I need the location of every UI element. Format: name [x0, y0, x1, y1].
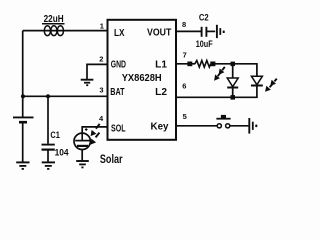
node: C1 junction on BAT net — [46, 94, 50, 98]
svg-text:8: 8 — [182, 20, 186, 29]
svg-text:7: 7 — [183, 51, 187, 60]
svg-text:6: 6 — [182, 81, 186, 90]
wire: pin 8 VOUT to C2 — [176, 30, 201, 32]
svg-text:BAT: BAT — [110, 87, 124, 98]
node: LED1 anode junction — [231, 62, 236, 67]
capacitor C2 — [202, 27, 216, 37]
LED2 emission arrows — [265, 79, 277, 92]
wire: top net from left rail to pin 1 LX — [23, 30, 108, 32]
node: battery junction on BAT net — [21, 94, 25, 98]
LED1 diode — [227, 64, 238, 98]
wire: resistor to LED branch corner — [215, 64, 257, 76]
node: square pad before resistor — [187, 62, 192, 67]
wire: pin 6 L2 net — [176, 96, 258, 98]
node: LED1 cathode junction — [231, 95, 236, 100]
svg-text:L2: L2 — [155, 87, 167, 98]
ground (solar) — [76, 161, 89, 167]
solar cell — [74, 133, 90, 160]
ground (Key, rotated) — [249, 118, 257, 134]
wire: BAT net to pin 3 — [23, 95, 108, 97]
wire: pin 7 L1 to resistor — [176, 63, 195, 65]
wire: pin 2 GND to ground — [87, 64, 108, 79]
LED1 emission arrows — [214, 67, 225, 81]
wire: pin 5 Key to switch — [176, 125, 217, 127]
svg-text:LX: LX — [114, 28, 125, 39]
svg-text:2: 2 — [99, 55, 103, 64]
wire: left rail — [22, 31, 24, 97]
svg-text:Solar: Solar — [100, 154, 123, 166]
svg-text:C2: C2 — [199, 13, 209, 24]
svg-text:L1: L1 — [155, 59, 167, 70]
ground (C1) — [42, 162, 55, 169]
svg-text:5: 5 — [183, 112, 187, 121]
resistor R1 — [195, 61, 211, 68]
op IC U1 YX8628H box — [108, 20, 177, 140]
svg-text:104: 104 — [55, 148, 70, 159]
wire: pin 4 SOL to solar cell — [82, 127, 107, 133]
polarity mark + at solar cell — [85, 128, 88, 131]
switch S1 push-button — [216, 115, 248, 128]
svg-text:Key: Key — [151, 121, 169, 132]
svg-text:3: 3 — [99, 85, 103, 94]
svg-text:1: 1 — [100, 21, 104, 30]
inductor 22uH — [44, 26, 63, 36]
label 22uH with underline — [42, 14, 65, 25]
svg-text:VOUT: VOUT — [147, 28, 171, 39]
svg-text:10uF: 10uF — [196, 39, 213, 50]
ground (pin 2) — [81, 80, 94, 86]
light arrows into solar cell — [90, 124, 99, 145]
battery cell — [13, 96, 34, 162]
node: square pad after resistor — [210, 62, 215, 67]
capacitor C1 — [42, 96, 55, 162]
svg-text:YX8628H: YX8628H — [122, 73, 162, 84]
svg-text:SOL: SOL — [111, 123, 126, 134]
ground (C2, rotated) — [217, 25, 225, 38]
svg-text:GND: GND — [111, 59, 126, 70]
ground (battery) — [16, 162, 29, 169]
svg-text:C1: C1 — [50, 130, 60, 141]
LED2 diode — [251, 76, 263, 97]
